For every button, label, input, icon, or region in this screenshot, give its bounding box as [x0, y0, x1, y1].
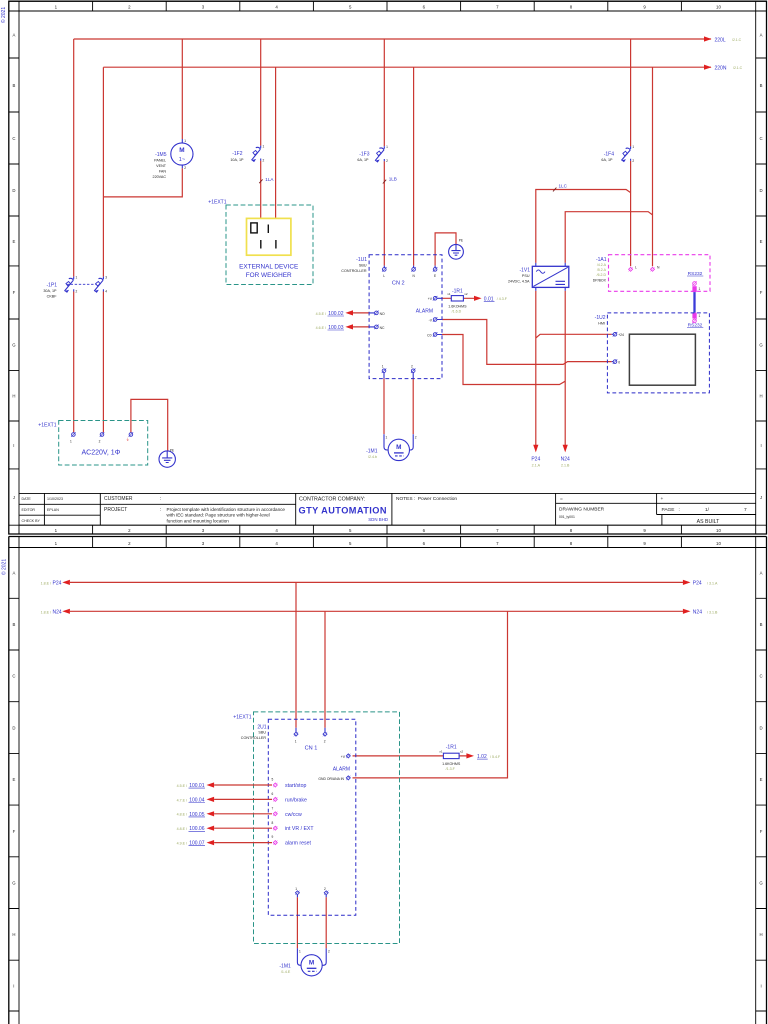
- svg-text:2: 2: [411, 365, 413, 369]
- page 1 border frame: [0, 1, 767, 534]
- svg-text:CUSTOMER: CUSTOMER: [104, 496, 133, 502]
- RS232 link: [687, 271, 703, 329]
- wire 100.02: [351, 312, 370, 314]
- svg-text:x1: x1: [447, 292, 451, 296]
- svg-text:H: H: [12, 394, 15, 399]
- wire -1F2 branch from 220L: [260, 39, 262, 146]
- svg-text:A: A: [760, 32, 763, 37]
- svg-text:x2: x2: [464, 292, 468, 296]
- svg-text:F: F: [13, 829, 16, 834]
- breaker -1F4: [601, 145, 634, 163]
- svg-text:L: L: [635, 266, 637, 270]
- wire alarm +V to -1R1 and 0.01: [442, 297, 474, 299]
- wire -1F3 branch from 220L: [383, 39, 385, 146]
- svg-text:-1R1: -1R1: [452, 288, 463, 294]
- svg-text:/2.4.b: /2.4.b: [368, 455, 377, 459]
- svg-text:/ 4.3.F: / 4.3.F: [497, 297, 508, 301]
- wire 1LB: [383, 161, 385, 265]
- svg-text:D: D: [12, 725, 15, 730]
- node 1LC: [553, 183, 568, 191]
- svg-text:NO: NO: [380, 312, 385, 316]
- HMI -1U2 box: [595, 313, 710, 393]
- svg-text:1~: 1~: [179, 157, 186, 163]
- svg-text:CHECK BY: CHECK BY: [22, 519, 41, 523]
- svg-text:M: M: [396, 444, 401, 451]
- svg-text:1: 1: [263, 145, 265, 149]
- wire -1F4 to -1A1 L: [630, 161, 632, 266]
- svg-text:A: A: [12, 571, 15, 576]
- svg-text:© 2021: © 2021: [0, 7, 7, 23]
- svg-text:2: 2: [324, 740, 326, 744]
- svg-text:E: E: [434, 274, 436, 278]
- wire N24 rail page2: [70, 610, 683, 612]
- svg-text:x2: x2: [460, 750, 464, 754]
- svg-text:/ 3.1.A: / 3.1.A: [707, 581, 718, 585]
- signal 100.02: [316, 310, 353, 317]
- node 1LA: [259, 177, 274, 183]
- wire ext device N: [275, 67, 277, 222]
- svg-text:start/stop: start/stop: [285, 783, 306, 789]
- svg-text:+V: +V: [341, 755, 346, 759]
- svg-text:B: B: [760, 83, 763, 88]
- svg-text:run/brake: run/brake: [285, 797, 307, 803]
- signal 100.04 run/brake: [177, 792, 307, 803]
- svg-text:1.8.E /: 1.8.E /: [41, 610, 51, 614]
- wire CN2 N drop: [413, 67, 415, 265]
- svg-text:VENT: VENT: [156, 164, 167, 168]
- node P24 right: [683, 580, 718, 587]
- svg-text:SBU: SBU: [359, 264, 367, 268]
- svg-text:x1: x1: [439, 750, 443, 754]
- svg-text:2: 2: [328, 950, 330, 954]
- svg-text:GND OR/ANA IN: GND OR/ANA IN: [318, 777, 344, 781]
- svg-text:CONTROLLER: CONTROLLER: [341, 269, 367, 273]
- wire P24 drop: [535, 291, 537, 449]
- svg-text:ALARM: ALARM: [416, 308, 433, 314]
- wire CN1 out2 to -1M1: [325, 897, 327, 948]
- node N24 left: [41, 609, 70, 616]
- svg-text:J: J: [760, 495, 762, 500]
- svg-text:P24: P24: [531, 457, 540, 463]
- svg-text:+V: +V: [428, 297, 433, 301]
- svg-text:GTY AUTOMATION: GTY AUTOMATION: [299, 506, 387, 516]
- svg-text:N24: N24: [693, 610, 702, 616]
- svg-text:PAGE :: PAGE :: [662, 507, 680, 513]
- wire 220L rail: [74, 38, 711, 40]
- wire AC220V N below -1P1: [102, 292, 104, 433]
- svg-text:0: 0: [618, 361, 620, 365]
- svg-text:-1F2: -1F2: [232, 151, 243, 157]
- svg-text:/5.2.A: /5.2.A: [597, 268, 607, 272]
- svg-text:M: M: [179, 147, 184, 154]
- AC220V box +1EXT1: [38, 421, 147, 466]
- svg-text:E: E: [760, 239, 763, 244]
- svg-text:+1EXT1: +1EXT1: [38, 423, 56, 429]
- svg-text:H: H: [760, 932, 763, 937]
- svg-text:A: A: [12, 32, 15, 37]
- svg-text:1: 1: [699, 314, 701, 318]
- svg-text:3: 3: [105, 276, 107, 280]
- node P24 left: [41, 580, 70, 587]
- svg-text:4.5.E /: 4.5.E /: [177, 784, 187, 788]
- svg-text:/6.2.D: /6.2.D: [597, 273, 607, 277]
- svg-text:AC220V, 1Φ: AC220V, 1Φ: [81, 449, 120, 456]
- svg-text:⏚: ⏚: [126, 437, 129, 442]
- svg-text:L: L: [383, 274, 385, 278]
- motor -1M1 page2: [279, 948, 330, 976]
- svg-text:M: M: [309, 959, 314, 966]
- svg-text:CN 1: CN 1: [305, 746, 318, 752]
- ground PE symbol bottom: [159, 448, 175, 467]
- svg-text:1: 1: [386, 145, 388, 149]
- svg-text:+24: +24: [618, 333, 624, 337]
- svg-text:H: H: [760, 394, 763, 399]
- svg-text:I: I: [13, 983, 14, 988]
- svg-text:2: 2: [324, 887, 326, 891]
- svg-text:P24: P24: [53, 581, 62, 587]
- svg-text:5: 5: [272, 778, 274, 782]
- svg-text:E: E: [760, 777, 763, 782]
- svg-text:PE: PE: [170, 448, 174, 452]
- svg-text:4.8.E /: 4.8.E /: [177, 827, 187, 831]
- svg-text:-1F3: -1F3: [359, 151, 370, 157]
- svg-text:CONTROLLER: CONTROLLER: [241, 736, 267, 740]
- svg-text:10: 10: [716, 5, 721, 10]
- svg-text:1/: 1/: [705, 507, 710, 513]
- svg-text:1: 1: [386, 436, 388, 440]
- controller -2U1 CN1 box: [241, 719, 356, 915]
- svg-text:A: A: [760, 571, 763, 576]
- wire CN2 out2 to -1M1: [412, 379, 414, 435]
- svg-text:PE: PE: [459, 239, 463, 243]
- svg-text:N24: N24: [561, 457, 570, 463]
- svg-text:2U1: 2U1: [257, 724, 266, 730]
- svg-text:PANEL: PANEL: [154, 159, 166, 163]
- svg-text:4: 4: [105, 289, 107, 293]
- svg-text:1: 1: [632, 145, 634, 149]
- resistor -1R1 page2: [439, 744, 463, 771]
- svg-text:001_ty001: 001_ty001: [559, 515, 575, 519]
- svg-text:PROJECT: PROJECT: [104, 507, 127, 513]
- controller -1U1 CN2 box: [341, 255, 442, 379]
- svg-text:2: 2: [184, 166, 186, 170]
- svg-text:2: 2: [415, 436, 417, 440]
- svg-text:+1EXT1: +1EXT1: [208, 200, 226, 206]
- svg-text:-1V1: -1V1: [519, 268, 530, 274]
- svg-text:1: 1: [299, 950, 301, 954]
- svg-text:F: F: [13, 290, 16, 295]
- svg-text:-1M5: -1M5: [155, 152, 167, 158]
- CN1 bottom pins: [295, 891, 299, 895]
- svg-text:with IEC standard: Page struct: with IEC standard: Page structure with h…: [167, 513, 270, 518]
- svg-text:220L: 220L: [715, 37, 726, 43]
- svg-text:4.8.E /: 4.8.E /: [177, 813, 187, 817]
- svg-text:-1M1: -1M1: [366, 448, 378, 454]
- node 1LB: [383, 177, 397, 184]
- svg-text:/4.2.A: /4.2.A: [597, 263, 607, 267]
- svg-text:8: 8: [272, 821, 274, 825]
- svg-text:4.9.E /: 4.9.E /: [177, 842, 187, 846]
- svg-text:=: =: [560, 497, 563, 502]
- svg-text:I: I: [13, 443, 14, 448]
- svg-text:CONTRACTOR COMPANY:: CONTRACTOR COMPANY:: [299, 497, 365, 503]
- signal 100.07 alarm reset: [177, 835, 312, 846]
- svg-text:HMI: HMI: [598, 322, 605, 326]
- svg-text:1.6KOHMS: 1.6KOHMS: [448, 304, 467, 308]
- svg-text:1: 1: [70, 440, 72, 444]
- svg-text:10: 10: [716, 541, 721, 546]
- svg-text:2: 2: [263, 159, 265, 163]
- wire CN2 E to PE: [435, 233, 456, 266]
- svg-text:220N: 220N: [715, 66, 727, 72]
- wire L phase drop to -1P1: [73, 39, 75, 277]
- outer box +1EXT1 page2: [233, 712, 399, 944]
- svg-text:ALARM: ALARM: [333, 767, 350, 773]
- wire AC220V PE loop: [131, 399, 168, 450]
- svg-text:4.6.E /: 4.6.E /: [316, 326, 326, 330]
- svg-text:/2.1.C: /2.1.C: [733, 66, 743, 70]
- svg-text:2.1.B: 2.1.B: [561, 463, 570, 467]
- svg-text:/1.3.F: /1.3.F: [446, 767, 456, 771]
- wire N drop to -1P1: [102, 67, 104, 276]
- svg-text:E: E: [12, 239, 15, 244]
- svg-text:-1U1: -1U1: [356, 257, 367, 263]
- signal 100.05 cw/ccw: [177, 806, 302, 817]
- svg-text:SDN BHD: SDN BHD: [368, 517, 388, 522]
- breaker -1P1 two pole: [43, 276, 107, 299]
- svg-text:1.8.E /: 1.8.E /: [41, 581, 51, 585]
- svg-text:DATE: DATE: [22, 497, 32, 501]
- svg-text:+1EXT1: +1EXT1: [233, 714, 251, 720]
- svg-text:NC: NC: [380, 326, 385, 330]
- svg-text:B: B: [12, 622, 15, 627]
- svg-text:F: F: [760, 829, 763, 834]
- node 220L: [704, 36, 742, 43]
- signal 100.06 int VR / EXT: [177, 821, 315, 832]
- svg-text:function and mounting location: function and mounting location: [167, 518, 230, 523]
- node 220N: [704, 65, 743, 72]
- svg-text:CKBF: CKBF: [47, 294, 58, 298]
- svg-text:EDITOR: EDITOR: [22, 508, 36, 512]
- svg-text:F: F: [760, 290, 763, 295]
- svg-text:24VDC, 4.5A: 24VDC, 4.5A: [508, 280, 530, 284]
- svg-text:4.5.E /: 4.5.E /: [316, 312, 326, 316]
- svg-text:4.7.E /: 4.7.E /: [177, 798, 187, 802]
- svg-text:D: D: [12, 188, 15, 193]
- svg-text:1LA: 1LA: [265, 177, 274, 182]
- svg-text:Project template with identifi: Project template with identification str…: [167, 507, 286, 512]
- svg-text::: :: [160, 507, 161, 513]
- svg-text:1: 1: [76, 276, 78, 280]
- svg-text:NOTES : Power Connection: NOTES : Power Connection: [396, 496, 457, 502]
- wire P24 drop to CN1: [295, 582, 297, 727]
- svg-text:-1A1: -1A1: [596, 257, 607, 263]
- svg-text:PSU: PSU: [522, 274, 530, 278]
- svg-text:DP/BOX: DP/BOX: [593, 278, 607, 282]
- svg-text:C: C: [760, 136, 763, 141]
- svg-text:H: H: [12, 932, 15, 937]
- svg-text:6: 6: [272, 792, 274, 796]
- signal 100.03: [316, 324, 353, 331]
- breaker -1F2: [230, 145, 264, 163]
- svg-text:10A, 1P: 10A, 1P: [230, 158, 244, 162]
- svg-text::: :: [160, 496, 161, 502]
- svg-text:D: D: [760, 725, 763, 730]
- svg-text:© 2021: © 2021: [1, 559, 8, 575]
- svg-text:DRAWING NUMBER: DRAWING NUMBER: [559, 507, 605, 513]
- wire N24 branch to alarm return: [353, 611, 508, 778]
- wire 1LA: [260, 161, 262, 223]
- motor -1M1 page1: [366, 434, 417, 460]
- svg-text:9: 9: [272, 835, 274, 839]
- svg-text:2: 2: [76, 289, 78, 293]
- svg-text:C0: C0: [427, 333, 431, 337]
- svg-text:alarm reset: alarm reset: [285, 841, 312, 847]
- svg-text:B: B: [12, 83, 15, 88]
- svg-text:-1M1: -1M1: [279, 964, 291, 970]
- CN2 right pins: [437, 298, 442, 334]
- node N24 page1: [561, 445, 570, 468]
- wire 220N rail: [103, 66, 711, 68]
- svg-text:-1F4: -1F4: [604, 151, 615, 157]
- wire -1M5 branch: [181, 39, 183, 139]
- svg-text:I: I: [760, 983, 761, 988]
- wire -1M5 return: [103, 168, 182, 197]
- wire 100.03: [351, 326, 370, 328]
- external device for weigher box +1EXT1: [208, 200, 313, 285]
- svg-text:1LC: 1LC: [559, 183, 568, 188]
- svg-text:B: B: [760, 622, 763, 627]
- wire N24 drop to CN1: [324, 611, 326, 728]
- svg-text:AS BUILT: AS BUILT: [697, 519, 721, 525]
- svg-text:1: 1: [295, 740, 297, 744]
- svg-text:30A, 1P: 30A, 1P: [43, 289, 57, 293]
- svg-text:E: E: [12, 777, 15, 782]
- breaker -1F3: [357, 145, 388, 163]
- wire CN2 C0 to N24: [442, 335, 565, 385]
- svg-text:+: +: [661, 497, 664, 502]
- signal 100.01 start/stop: [177, 778, 307, 789]
- svg-text:/1.6.D: /1.6.D: [452, 309, 462, 313]
- svg-text:1LB: 1LB: [389, 177, 397, 182]
- svg-text:1: 1: [295, 887, 297, 891]
- svg-text:int VR / EXT: int VR / EXT: [285, 826, 314, 832]
- svg-text:I: I: [760, 443, 761, 448]
- wire CN2 out1 to -1M1: [383, 379, 385, 435]
- svg-text:2: 2: [632, 159, 634, 163]
- svg-text:cw/ccw: cw/ccw: [285, 812, 302, 818]
- page 2 border frame: [1, 537, 767, 1024]
- svg-text:2: 2: [386, 159, 388, 163]
- wire -1F4 branch from 220L: [630, 39, 632, 146]
- svg-text:J: J: [13, 495, 15, 500]
- svg-text:/ 5.4.F: / 5.4.F: [490, 755, 501, 759]
- svg-text:6A, 1P: 6A, 1P: [357, 158, 369, 162]
- wire N to PSU: [565, 212, 652, 263]
- resistor -1R1 page1: [447, 288, 468, 313]
- CN2 left pins NO NC: [369, 313, 374, 327]
- wire 1LC to PSU: [536, 190, 631, 263]
- wire P24 branch to HMI: [536, 334, 612, 338]
- svg-text:/ 3.1.B: / 3.1.B: [707, 610, 718, 614]
- socket symbol: [247, 218, 291, 255]
- wire alarm +V to -1R1: [353, 755, 467, 757]
- node N24 right: [683, 609, 718, 616]
- svg-text:10: 10: [716, 528, 721, 533]
- svg-text:/1.4.E: /1.4.E: [281, 970, 291, 974]
- wire P24 rail page2: [70, 581, 683, 583]
- motor -1M5: [153, 139, 193, 179]
- svg-text:C: C: [12, 674, 15, 679]
- alarm pins: [346, 754, 350, 758]
- PSU -1V1: [508, 263, 569, 291]
- svg-text:FAN: FAN: [159, 170, 167, 174]
- wire N24 drop: [564, 291, 566, 449]
- box -1A1: [593, 255, 710, 292]
- node 0.01: [474, 296, 508, 303]
- svg-text:6A, 1P: 6A, 1P: [601, 158, 613, 162]
- svg-text:-1R1: -1R1: [446, 744, 457, 750]
- node 1.02: [466, 753, 501, 760]
- svg-text:FOR WEIGHER: FOR WEIGHER: [246, 272, 292, 279]
- svg-text:1: 1: [699, 287, 701, 291]
- svg-text:C: C: [12, 136, 15, 141]
- svg-text:1: 1: [184, 139, 186, 143]
- svg-text:220VAC: 220VAC: [153, 175, 167, 179]
- title block page 1: [19, 493, 756, 525]
- svg-text:N24: N24: [53, 610, 62, 616]
- svg-text:7: 7: [272, 806, 274, 810]
- svg-text:/2.1.C: /2.1.C: [732, 38, 742, 42]
- wire CN1 out1 to -1M1: [296, 897, 298, 948]
- svg-text:1.6KOHMS: 1.6KOHMS: [442, 762, 461, 766]
- svg-text:SBU: SBU: [258, 731, 266, 735]
- svg-text:-1P1: -1P1: [46, 282, 57, 288]
- wire CN2 -V to N24 to HMI 0: [442, 320, 612, 365]
- CN2 bottom pins: [384, 373, 413, 379]
- svg-text:-1U2: -1U2: [595, 315, 606, 321]
- svg-text:1/10/2023: 1/10/2023: [47, 497, 63, 501]
- svg-text:CN 2: CN 2: [392, 281, 405, 287]
- svg-text:1: 1: [382, 365, 384, 369]
- node P24 page1: [531, 445, 540, 468]
- svg-text:7: 7: [744, 507, 747, 513]
- svg-text:2.1.A: 2.1.A: [532, 463, 541, 467]
- svg-text:EXTERNAL DEVICE: EXTERNAL DEVICE: [239, 263, 298, 270]
- svg-text:P24: P24: [693, 581, 702, 587]
- svg-text:D: D: [760, 188, 763, 193]
- wire AC220V L below -1P1: [73, 292, 75, 433]
- wire -1A1 N drop: [652, 67, 654, 266]
- PE earth near CN2: [449, 239, 464, 260]
- svg-text:C: C: [760, 674, 763, 679]
- svg-text:2: 2: [99, 440, 101, 444]
- svg-text:EPLAN: EPLAN: [47, 508, 59, 512]
